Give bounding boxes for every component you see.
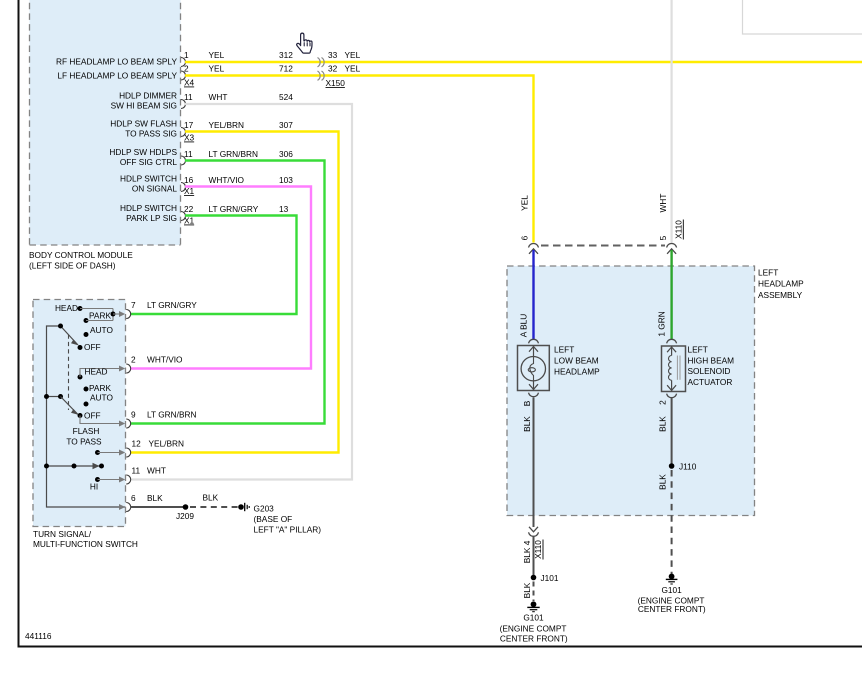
svg-text:BLK: BLK — [657, 416, 667, 432]
svg-text:CENTER FRONT): CENTER FRONT) — [500, 634, 568, 644]
left low beam headlamp E1 — [518, 346, 550, 391]
svg-text:524: 524 — [279, 92, 293, 102]
svg-text:306: 306 — [279, 149, 293, 159]
svg-text:2: 2 — [657, 400, 667, 405]
svg-text:HEAD: HEAD — [55, 303, 78, 313]
svg-text:SOLENOID: SOLENOID — [688, 366, 731, 376]
BCM pin 2 labels — [57, 64, 293, 81]
svg-text:312: 312 — [279, 50, 293, 60]
svg-text:BLK 4: BLK 4 — [522, 540, 532, 563]
BCM pin 11 bracket — [181, 100, 186, 109]
svg-text:32: 32 — [328, 64, 338, 74]
svg-text:YEL/BRN: YEL/BRN — [149, 439, 185, 449]
svg-text:J110: J110 — [679, 462, 697, 472]
svg-text:HDLP SWITCH: HDLP SWITCH — [120, 174, 177, 184]
wire BLK pin6 to splice J209 — [131, 506, 186, 508]
connector X150 labels — [326, 50, 361, 88]
inline connector X150 chevrons on wire 312 — [318, 58, 325, 67]
wire A BLU (X110 pin6 to lamp) — [532, 250, 534, 340]
svg-text:AUTO: AUTO — [90, 325, 113, 335]
connector X110 pin 4 terminal (male arrow + female arc, below box) — [529, 527, 539, 537]
svg-text:HDLP SW HDLPS: HDLP SW HDLPS — [109, 147, 177, 157]
switch S1a AUTO contact — [84, 325, 114, 337]
svg-text:BLK: BLK — [522, 416, 532, 432]
wire BLK (dashed) J209 to G203 — [190, 493, 238, 508]
svg-text:BODY CONTROL MODULE: BODY CONTROL MODULE — [29, 250, 133, 260]
switch pin 2 — [119, 355, 183, 374]
svg-text:LEFT: LEFT — [688, 345, 708, 355]
wire BLK (lamp to X110 pin4) — [533, 398, 535, 528]
splice J209 — [176, 504, 194, 521]
svg-text:FLASH: FLASH — [73, 426, 100, 436]
svg-text:2: 2 — [184, 64, 189, 74]
page frame left border — [18, 0, 20, 648]
BCM pin 11b bracket — [181, 156, 186, 165]
svg-text:MULTI-FUNCTION SWITCH: MULTI-FUNCTION SWITCH — [33, 539, 138, 549]
switch S1b PARK contact — [84, 383, 112, 393]
svg-text:SW HI BEAM SIG: SW HI BEAM SIG — [111, 101, 177, 111]
splice J101 — [531, 573, 559, 583]
svg-text:TURN SIGNAL/: TURN SIGNAL/ — [33, 529, 92, 539]
svg-text:AUTO: AUTO — [90, 393, 113, 403]
wire WHT 524 (pin11 right, down, left to switch pin 11) — [130, 104, 352, 480]
BCM pin 1 labels — [56, 50, 293, 67]
flash to pass label — [66, 426, 102, 447]
lamp terminal B (female arc below) — [529, 393, 539, 397]
svg-text:6: 6 — [520, 235, 530, 240]
page frame bottom border — [18, 646, 862, 648]
wire YEL/BRN 307 (pin17 right, down, left to switch pin 12) — [130, 132, 339, 453]
svg-text:33: 33 — [328, 50, 338, 60]
svg-text:LEFT: LEFT — [758, 268, 778, 278]
ground G203 symbol — [238, 503, 249, 511]
switch S1b AUTO contact — [84, 393, 114, 407]
left high beam solenoid actuator L1 — [662, 346, 686, 392]
svg-text:X3: X3 — [184, 133, 195, 143]
svg-text:1 GRN: 1 GRN — [657, 311, 667, 336]
wire YEL 712 (pin2 right then down to X110 pin6) — [185, 76, 534, 243]
switch S1b lever (to OFF) — [61, 397, 80, 416]
svg-text:A BLU: A BLU — [519, 314, 529, 338]
solenoid terminal 2 (female arc below) — [667, 394, 677, 398]
switch pin 12 — [119, 439, 184, 458]
svg-text:X110: X110 — [674, 220, 684, 239]
svg-text:HEADLAMP: HEADLAMP — [758, 279, 804, 289]
svg-text:X4: X4 — [184, 78, 195, 88]
switch S1b OFF contact — [78, 411, 120, 424]
svg-text:LF HEADLAMP LO BEAM SPLY: LF HEADLAMP LO BEAM SPLY — [57, 71, 177, 81]
connector X110 face (dashed line between pins 6 and 5) — [541, 245, 665, 247]
svg-text:X1: X1 — [184, 216, 195, 226]
HI contact — [90, 477, 120, 492]
svg-text:J101: J101 — [541, 573, 559, 583]
switch S1a lever (to OFF) — [58, 324, 79, 346]
wire WHT/VIO 103 (pin16 right, down, left to switch pin 2) — [130, 187, 311, 369]
svg-text:11: 11 — [184, 149, 193, 159]
svg-text:LEFT "A" PILLAR): LEFT "A" PILLAR) — [254, 525, 322, 535]
svg-text:PARK LP SIG: PARK LP SIG — [126, 213, 177, 223]
wire BLK (solenoid to J110) — [671, 398, 673, 466]
switch S1a OFF contact — [78, 342, 101, 352]
svg-text:YEL: YEL — [209, 50, 225, 60]
svg-text:WHT: WHT — [209, 92, 228, 102]
svg-text:OFF: OFF — [84, 342, 101, 352]
svg-text:(BASE OF: (BASE OF — [254, 514, 293, 524]
svg-text:X150: X150 — [326, 78, 346, 88]
BCM pin 22 bracket — [181, 212, 186, 221]
svg-text:LT GRN/GRY: LT GRN/GRY — [147, 300, 197, 310]
svg-text:LT GRN/GRY: LT GRN/GRY — [209, 204, 259, 214]
svg-text:BLK: BLK — [657, 474, 667, 490]
wire WHT from top of page down to X110 pin 5 — [670, 0, 672, 243]
switch S1a PARK contact — [84, 309, 120, 324]
ground G203 label — [254, 504, 322, 535]
svg-text:HIGH BEAM: HIGH BEAM — [688, 355, 735, 365]
svg-text:RF HEADLAMP LO BEAM SPLY: RF HEADLAMP LO BEAM SPLY — [56, 57, 177, 67]
svg-text:16: 16 — [184, 175, 194, 185]
switch S1a HEAD contact — [55, 303, 113, 313]
svg-text:(ENGINE COMPT: (ENGINE COMPT — [500, 624, 567, 634]
svg-text:HDLP DIMMER: HDLP DIMMER — [119, 91, 177, 101]
BCM pin 16 bracket — [181, 183, 186, 192]
wire BLK dashed (J101 to G101 left) — [522, 582, 534, 602]
BCM pin 1 bracket — [181, 58, 186, 67]
svg-text:G101: G101 — [661, 585, 682, 595]
svg-text:LEFT: LEFT — [554, 345, 574, 355]
svg-text:YEL: YEL — [209, 64, 225, 74]
svg-text:WHT/VIO: WHT/VIO — [147, 355, 183, 365]
dimmer switch lever row — [44, 463, 104, 469]
connector X110 pin 5 terminal — [667, 244, 677, 254]
left headlamp assembly box — [507, 266, 755, 516]
svg-text:11: 11 — [184, 92, 193, 102]
connector X110 label (vertical, underlined) b — [533, 540, 543, 560]
svg-text:TO PASS: TO PASS — [66, 437, 102, 447]
svg-text:HEAD: HEAD — [85, 367, 108, 377]
switch pin 6 — [119, 493, 163, 512]
svg-text:TO PASS SIG: TO PASS SIG — [125, 129, 177, 139]
svg-text:WHT: WHT — [658, 194, 668, 213]
svg-text:13: 13 — [279, 204, 289, 214]
mouse cursor (hand pointer) — [297, 33, 312, 53]
body control module label — [29, 250, 133, 271]
left high beam solenoid actuator label — [688, 345, 735, 387]
svg-text:OFF SIG CTRL: OFF SIG CTRL — [120, 157, 178, 167]
svg-text:YEL: YEL — [520, 195, 530, 211]
svg-text:YEL: YEL — [345, 50, 361, 60]
svg-text:WHT/VIO: WHT/VIO — [209, 175, 245, 185]
svg-text:(LEFT SIDE OF DASH): (LEFT SIDE OF DASH) — [29, 260, 116, 270]
svg-text:17: 17 — [184, 120, 194, 130]
svg-text:PARK: PARK — [89, 383, 111, 393]
body control module U1 box — [30, 0, 181, 245]
switch S1b HEAD contact — [78, 367, 120, 380]
BCM pin 2 bracket — [181, 71, 186, 80]
svg-text:12: 12 — [132, 439, 142, 449]
svg-text:441116: 441116 — [25, 631, 52, 641]
svg-text:G101: G101 — [523, 613, 544, 623]
flash to pass contact — [95, 450, 120, 455]
BCM pin 16 labels — [120, 174, 293, 194]
svg-text:103: 103 — [279, 175, 293, 185]
svg-text:PARK: PARK — [89, 311, 111, 321]
module box (other module, top right corner) — [743, 0, 862, 34]
connector X110 pin 6 terminal (female arc + male arrow) — [529, 244, 539, 254]
svg-text:7: 7 — [131, 300, 136, 310]
svg-text:1: 1 — [184, 50, 189, 60]
switch S1b pivot — [44, 394, 63, 399]
left headlamp assembly label — [758, 268, 804, 300]
inline connector X150 chevrons on wire 712 — [318, 71, 325, 80]
switch pin 9 — [119, 410, 196, 429]
wire BLK dashed (J110 to G101 right) — [657, 470, 671, 574]
BCM pin 11b labels (hdlps off) — [109, 147, 293, 167]
svg-text:CENTER FRONT): CENTER FRONT) — [638, 604, 706, 614]
svg-text:9: 9 — [131, 410, 136, 420]
wire BLK (X110 pin4 to J101) — [533, 537, 535, 578]
svg-text:B: B — [522, 400, 532, 406]
BCM pin 17 bracket — [181, 128, 186, 137]
ground G101 (engine compt center front) right — [638, 574, 706, 614]
splice J110 — [669, 462, 697, 472]
svg-text:ACTUATOR: ACTUATOR — [688, 377, 733, 387]
BCM pin 17 labels — [110, 119, 293, 139]
svg-text:BLK: BLK — [203, 493, 219, 503]
svg-text:HI: HI — [90, 482, 98, 492]
svg-text:LT GRN/BRN: LT GRN/BRN — [209, 149, 258, 159]
svg-text:YEL: YEL — [345, 64, 361, 74]
svg-text:22: 22 — [184, 204, 194, 214]
switch pin 11 — [119, 466, 166, 485]
svg-text:5: 5 — [658, 235, 668, 240]
lamp terminal A (female arc) — [529, 339, 539, 343]
svg-text:307: 307 — [279, 120, 293, 130]
svg-text:11: 11 — [132, 466, 141, 476]
BCM pin 11 labels (hi beam sig) — [111, 91, 294, 111]
BCM pin 22 labels — [120, 203, 289, 223]
svg-text:OFF: OFF — [84, 411, 101, 421]
svg-text:HDLP SW FLASH: HDLP SW FLASH — [110, 119, 177, 129]
wire LT GRN/BRN 306 (pin11b right, down, left to switch pin 9) — [130, 161, 325, 424]
ground G101 (engine compt center front) left — [500, 601, 568, 643]
svg-text:HDLP SWITCH: HDLP SWITCH — [120, 203, 177, 213]
turn signal / multi-function switch S1 box — [33, 300, 126, 527]
wire 1 GRN (X110 pin5 to solenoid) — [670, 250, 672, 340]
svg-text:LOW BEAM: LOW BEAM — [554, 356, 599, 366]
svg-text:J209: J209 — [176, 511, 194, 521]
left low beam headlamp label — [554, 345, 600, 377]
svg-text:BLK: BLK — [147, 493, 163, 503]
svg-text:2: 2 — [131, 355, 136, 365]
svg-text:ASSEMBLY: ASSEMBLY — [758, 290, 803, 300]
wire LT GRN/GRY 13 (pin22 right, down, left to switch pin 7) — [130, 216, 297, 315]
svg-text:G203: G203 — [254, 504, 275, 514]
svg-text:HEADLAMP: HEADLAMP — [554, 367, 600, 377]
switch common wire (vertical bus) — [47, 326, 126, 507]
svg-text:712: 712 — [279, 64, 293, 74]
wire YEL 312 (pin1 to right edge) — [185, 61, 862, 63]
switch pin 7 — [119, 300, 197, 319]
svg-text:6: 6 — [131, 493, 136, 503]
svg-text:WHT: WHT — [147, 466, 166, 476]
svg-text:BLK: BLK — [522, 582, 532, 598]
switch S1a mechanical link (dashed) — [68, 335, 70, 411]
connector X110 label (vertical, underlined) — [674, 220, 684, 240]
svg-text:LT GRN/BRN: LT GRN/BRN — [147, 410, 196, 420]
turn signal switch label — [33, 529, 138, 549]
solenoid terminal 1 (female arc) — [667, 339, 677, 343]
svg-text:ON SIGNAL: ON SIGNAL — [132, 184, 178, 194]
svg-text:YEL/BRN: YEL/BRN — [209, 120, 245, 130]
